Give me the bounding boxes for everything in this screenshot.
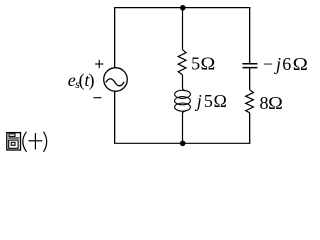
wire: bottom rail from left branch to right branch	[114, 142, 250, 144]
svg-text:−j6: −j6	[263, 54, 291, 74]
svg-text:j5Ω: j5Ω	[195, 91, 227, 111]
wire: right branch between capacitor and resistor	[249, 68, 251, 90]
wire: right branch upper segment	[249, 8, 251, 64]
voltage source e_s(t) (AC source U1)	[104, 68, 128, 92]
caption 圖(十): drawn glyph 圖	[7, 133, 21, 150]
wire: middle branch upper segment	[182, 8, 184, 50]
wire: middle branch between resistor and inductor	[182, 75, 184, 88]
svg-text:es(t): es(t)	[68, 70, 95, 91]
resistor 8Ω (right branch)	[246, 90, 254, 113]
caption 圖(十): drawn glyph 十	[28, 133, 42, 149]
resistor 5Ω (middle branch)	[178, 50, 186, 75]
inductor j5Ω (middle branch)	[175, 88, 191, 113]
wire: left branch upper segment	[114, 8, 116, 68]
svg-text:Ω: Ω	[268, 94, 283, 114]
node: top junction	[180, 5, 186, 11]
caption 圖(十): opening parenthesis	[23, 132, 27, 152]
wire: right branch lower segment	[249, 113, 251, 144]
polarity - of source	[93, 97, 101, 99]
wire: left branch lower segment	[114, 91, 116, 143]
caption 圖(十): closing parenthesis	[44, 132, 47, 152]
node: bottom junction	[180, 141, 186, 147]
capacitor -j6Ω (right branch)	[242, 64, 257, 68]
polarity + of source	[95, 60, 103, 68]
wire: middle branch lower segment	[182, 112, 184, 143]
svg-text:Ω: Ω	[201, 54, 216, 74]
svg-text:5: 5	[191, 54, 200, 74]
svg-text:Ω: Ω	[293, 55, 308, 75]
wire: top rail from left branch to right branch	[114, 7, 250, 9]
